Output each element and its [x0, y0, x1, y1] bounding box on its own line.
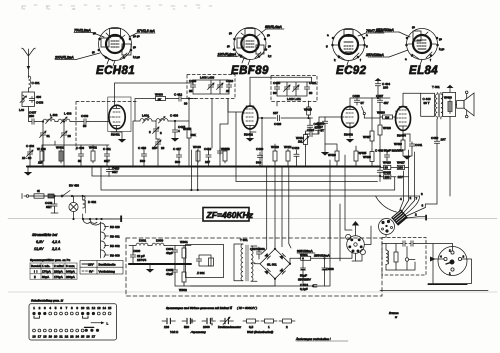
resistor W411 — [284, 145, 292, 167]
svg-text:11: 11 — [86, 306, 89, 310]
svg-text:180: 180 — [398, 166, 403, 170]
capacitor C434 — [375, 78, 391, 99]
svg-text:7: 7 — [416, 197, 418, 201]
svg-text:1M: 1M — [385, 116, 390, 120]
svg-text:C410: C410 — [226, 79, 234, 83]
resistor W427 — [397, 161, 409, 170]
svg-text:350/385V: 350/385V — [298, 278, 311, 282]
speaker LS — [456, 91, 474, 118]
socket wires — [352, 226, 371, 261]
svg-text:EC92: EC92 — [336, 65, 367, 77]
capacitor C409 — [81, 114, 89, 128]
resistor W601 — [290, 252, 352, 264]
svg-text:Rö 426: Rö 426 — [110, 225, 120, 229]
svg-text:L408 L409: L408 L409 — [200, 76, 215, 80]
vertical feeder x414.5 — [414, 152, 416, 201]
capacitor C425 — [307, 118, 321, 130]
svg-text:T 601: T 601 — [240, 238, 248, 242]
svg-text:C441: C441 — [415, 143, 423, 147]
coil D402 — [82, 195, 97, 219]
wire box2 down legs — [276, 102, 278, 107]
svg-text:C 416: C 416 — [138, 146, 146, 150]
svg-text:13: 13 — [97, 306, 101, 310]
svg-text:0,1μF: 0,1μF — [300, 287, 308, 291]
svg-text:22: 22 — [65, 335, 69, 339]
filter coil in box — [386, 244, 389, 271]
caps in box top — [382, 241, 426, 246]
wire EBF89 plate top — [250, 77, 312, 106]
svg-text:C420: C420 — [256, 147, 264, 151]
svg-text:1874/4: 1874/4 — [137, 258, 147, 262]
svg-text:C 401: C 401 — [32, 81, 40, 85]
plug face circle — [379, 219, 395, 238]
svg-text:7: 7 — [66, 306, 68, 310]
tube socket U-EC92 — [326, 29, 368, 71]
capacitor C410b below bus — [106, 167, 119, 177]
resistor W427b — [363, 98, 374, 150]
vertical feeder x408.5 — [408, 150, 410, 201]
tube Ro404 EL84 — [396, 104, 411, 138]
coil D601 — [129, 239, 148, 246]
svg-text:Drehkondensator: Drehkondensator — [218, 325, 241, 329]
table Spannungswaehler — [30, 258, 77, 279]
resistor W405 — [221, 147, 229, 163]
svg-text:EBF89: EBF89 — [231, 65, 269, 77]
resistor W428 — [378, 105, 391, 167]
page top tick marks — [22, 5, 212, 9]
svg-text:T 401: T 401 — [432, 85, 440, 89]
svg-text:19: 19 — [49, 335, 53, 339]
svg-text:W409: W409 — [183, 127, 191, 131]
capacitor C412 — [174, 93, 188, 106]
ground symbol at bus start — [24, 167, 32, 176]
wire AC drop 1 — [262, 167, 267, 254]
capacitor C442a — [381, 150, 393, 161]
EL84 cathode network W429 C441 — [394, 130, 423, 160]
svg-text:25: 25 — [81, 335, 85, 339]
capacitor C418 — [217, 147, 230, 155]
switch table Schalterstellung — [29, 299, 117, 341]
svg-text:2: 2 — [39, 306, 41, 310]
svg-text:40μF: 40μF — [166, 251, 173, 255]
coil L402 — [43, 113, 58, 124]
svg-text:187: 187 — [273, 111, 278, 115]
svg-text:L 402: L 402 — [50, 113, 58, 117]
trimmer C402 — [22, 144, 34, 167]
svg-text:π: π — [395, 315, 398, 319]
svg-text:400: 400 — [36, 95, 41, 99]
svg-text:Rö 401: Rö 401 — [110, 235, 120, 239]
svg-text:280μA: 280μA — [66, 275, 75, 279]
svg-text:30 T: 30 T — [424, 101, 430, 105]
svg-text:Rö403: Rö403 — [344, 133, 353, 137]
wire bottom power — [191, 261, 330, 286]
svg-text:457: 457 — [384, 101, 389, 105]
svg-text:Volt Ω: Volt Ω — [170, 330, 179, 334]
wire W430 down — [449, 116, 451, 196]
wire x212 drop — [211, 99, 213, 149]
capacitor C436 — [353, 94, 365, 105]
capacitor C600 — [130, 246, 146, 265]
svg-text:C 408: C 408 — [170, 114, 178, 118]
resistor W901 — [180, 240, 188, 264]
coil C408 — [156, 114, 178, 124]
svg-text:C418: C418 — [223, 147, 231, 151]
fuse Si — [29, 189, 48, 198]
potentiometer W414 — [296, 127, 310, 166]
svg-text:12V: 12V — [88, 263, 93, 267]
resistor W418 — [304, 101, 312, 119]
svg-text:14: 14 — [103, 306, 107, 310]
svg-text:a: a — [405, 57, 407, 61]
svg-text:W406: W406 — [155, 93, 163, 97]
dashed output box — [382, 238, 426, 276]
capacitor C420b — [256, 147, 264, 167]
svg-text:C437: C437 — [376, 94, 384, 98]
svg-text:4: 4 — [178, 129, 180, 133]
svg-text:g3: g3 — [439, 37, 443, 41]
svg-text:4: 4 — [400, 197, 402, 201]
svg-text:g3: g3 — [133, 45, 137, 49]
svg-text:10T: 10T — [441, 138, 446, 142]
wire feed y145 — [55, 141, 109, 145]
tube Ro403 EC92 — [342, 107, 359, 137]
svg-text:4: 4 — [49, 306, 51, 310]
svg-text:C607/2000: C607/2000 — [250, 247, 265, 251]
svg-text:9: 9 — [76, 306, 78, 310]
legend res 2 — [279, 319, 295, 329]
resistor W429b — [363, 150, 374, 167]
svg-text:87V/2,8 mA: 87V/2,8 mA — [137, 29, 155, 33]
svg-text:0,5: 0,5 — [249, 325, 254, 329]
trimmer C404 — [40, 120, 51, 166]
svg-text:24: 24 — [76, 335, 80, 339]
svg-text:SET: SET — [112, 170, 118, 174]
switch RV455 — [362, 107, 366, 119]
svg-text:2,2 A: 2,2 A — [51, 247, 61, 251]
svg-text:1: 1 — [268, 325, 270, 329]
svg-text:3: 3 — [421, 192, 423, 196]
svg-text:W430: W430 — [377, 111, 385, 115]
tube Ro402 EBF89 — [242, 103, 258, 137]
bus in power box (thick) — [129, 263, 191, 265]
capacitor C439 — [431, 119, 446, 204]
resistor W420 — [380, 161, 397, 170]
svg-text:50: 50 — [78, 159, 82, 163]
svg-text:30: 30 — [184, 102, 188, 106]
svg-text:Rö 409: Rö 409 — [110, 254, 120, 258]
coil C401 — [28, 76, 39, 92]
heater tap labels — [105, 225, 121, 258]
dashed tuner enclosure — [76, 102, 137, 151]
svg-text:W425: W425 — [359, 151, 367, 155]
svg-text:29: 29 — [161, 146, 165, 150]
svg-text:3: 3 — [463, 255, 465, 259]
svg-text:23: 23 — [70, 335, 74, 339]
svg-text:75V/2,8mA: 75V/2,8mA — [74, 29, 92, 33]
svg-text:16: 16 — [32, 335, 36, 339]
junction dots on bus — [29, 165, 381, 167]
svg-text:g2: g2 — [412, 25, 416, 29]
svg-text:4,2 A: 4,2 A — [52, 240, 61, 244]
annotation ECH81 top-right — [129, 29, 155, 37]
wire AC drop 2 — [274, 167, 276, 249]
svg-text:80μA: 80μA — [42, 275, 49, 279]
svg-text:40μF: 40μF — [166, 272, 173, 276]
svg-text:W430: W430 — [444, 96, 452, 100]
ground bus (thick) — [27, 165, 380, 167]
svg-text:k: k — [334, 58, 336, 62]
note Aenderungen — [295, 337, 348, 341]
annotation EC92 top-right — [358, 29, 384, 36]
resistor W402 — [89, 145, 97, 163]
svg-text:1M: 1M — [38, 161, 43, 165]
capacitor C440 on drop — [377, 168, 382, 182]
svg-text:100: 100 — [383, 86, 388, 90]
svg-text:↗spannung: ↗spannung — [190, 330, 206, 334]
svg-text:g: g — [326, 44, 328, 48]
svg-text:W425: W425 — [383, 171, 391, 175]
speaker plug wiring — [426, 244, 472, 285]
svg-text:II: II — [34, 275, 36, 279]
capacitor C602 — [322, 257, 334, 286]
legend trimmer — [218, 317, 241, 330]
wire AC drop 3 — [281, 167, 283, 247]
svg-text:21: 21 — [59, 335, 63, 339]
node in box — [386, 247, 415, 271]
svg-text:ECH81: ECH81 — [96, 65, 135, 77]
speaker plug circle — [438, 247, 467, 276]
tube socket U-EL84 — [405, 25, 445, 71]
svg-text:340μA: 340μA — [66, 270, 75, 274]
svg-text:520: 520 — [184, 325, 189, 329]
svg-text:Schalterstellung gem. M: Schalterstellung gem. M — [31, 299, 64, 303]
svg-text:Rö 402: Rö 402 — [110, 244, 120, 248]
box W430 — [443, 92, 456, 116]
svg-text:2: 2 — [286, 325, 288, 329]
svg-text:C600: C600 — [133, 249, 141, 253]
resistor W406 — [154, 93, 168, 102]
wire to EL84 grid — [364, 111, 396, 118]
resistor W409 — [183, 97, 196, 166]
svg-text:C424: C424 — [307, 128, 315, 132]
svg-text:2: 2 — [149, 130, 151, 134]
svg-text:500: 500 — [175, 160, 180, 164]
svg-text:170μA: 170μA — [42, 270, 51, 274]
svg-text:I I: I I — [34, 270, 38, 274]
capacitor C415 — [171, 120, 186, 142]
svg-text:1M: 1M — [298, 140, 303, 144]
svg-text:260: 260 — [29, 114, 34, 118]
svg-text:Watt (Belastbarkeit): Watt (Belastbarkeit) — [247, 330, 273, 334]
svg-text:200V/5,2mA: 200V/5,2mA — [54, 56, 74, 60]
svg-text:1 min.: 1 min. — [42, 264, 50, 268]
svg-text:C426: C426 — [274, 122, 282, 126]
svg-text:15: 15 — [108, 306, 112, 310]
annotation 255V — [314, 254, 330, 258]
capacitor C407 — [29, 111, 37, 125]
svg-text:5T: 5T — [361, 101, 365, 105]
svg-text:W411: W411 — [284, 145, 292, 149]
ground in power box — [146, 264, 154, 273]
svg-text:L 403: L 403 — [64, 112, 72, 116]
fan wire tips — [400, 192, 424, 217]
grid stopper to tube — [108, 117, 110, 122]
annotation ECH81 lower-left — [54, 53, 100, 60]
capacitor C443 — [45, 195, 58, 213]
wire fan5 to tick — [418, 216, 425, 218]
svg-text:10: 10 — [81, 306, 85, 310]
legend res 1 — [261, 319, 277, 329]
svg-text:C409: C409 — [81, 114, 89, 118]
svg-text:1: 1 — [449, 272, 451, 276]
svg-text:g: g — [366, 44, 368, 48]
svg-text:12V: 12V — [398, 175, 403, 179]
svg-text:W429: W429 — [363, 155, 371, 159]
svg-text:31: 31 — [47, 134, 51, 138]
svg-text:W901: W901 — [180, 240, 188, 244]
bridge AC connections — [191, 263, 275, 286]
svg-text:C403: C403 — [36, 101, 44, 105]
svg-text:C439: C439 — [431, 136, 439, 140]
svg-text:126: 126 — [164, 325, 169, 329]
electrolytic C442 labels — [375, 149, 403, 153]
svg-text:k,t: k,t — [268, 54, 271, 58]
svg-text:Spannungswähler gem. an Pu: Spannungswähler gem. an Pu — [30, 258, 71, 262]
svg-text:30: 30 — [385, 166, 389, 170]
svg-text:5: 5 — [55, 306, 57, 310]
svg-text:W427: W427 — [363, 135, 371, 139]
resistor W401 — [56, 146, 64, 164]
svg-text:C419: C419 — [204, 147, 212, 151]
svg-text:3: 3 — [160, 131, 162, 135]
wire osc mid — [133, 121, 189, 167]
svg-text:88V/0,4mA: 88V/0,4mA — [265, 25, 283, 29]
svg-text:Bereich: Bereich — [31, 264, 42, 268]
wire bridge output right — [330, 200, 340, 261]
resistor W425b — [354, 146, 367, 167]
svg-text:Z 601: Z 601 — [196, 271, 205, 275]
svg-text:C 417: C 417 — [173, 147, 181, 151]
resistor in box — [394, 244, 398, 271]
wire AC drop 4 — [289, 167, 291, 249]
wire osc top — [135, 99, 196, 122]
annotation ECH81 left — [74, 29, 104, 38]
svg-text:27: 27 — [92, 335, 96, 339]
capacitor C437 — [376, 94, 389, 105]
svg-text:3 max.: 3 max. — [66, 264, 75, 268]
ground above socket — [352, 221, 359, 236]
tube Ro401 ECH81 triode-heptode — [109, 105, 125, 137]
svg-text:Spannungen und Ströme gemessen: Spannungen und Ströme gemessen mit Multa… — [166, 306, 257, 310]
vertical feeder x403.5 — [403, 171, 405, 201]
svg-text:2: 2 — [415, 213, 417, 217]
heater wire y219 — [82, 218, 121, 220]
annotation EBF89 top-right — [261, 25, 284, 33]
svg-text:4: 4 — [440, 255, 442, 259]
wire ECH81 cathode — [111, 129, 126, 143]
svg-text:6,3V: 6,3V — [36, 240, 44, 244]
svg-text:1K: 1K — [158, 97, 162, 101]
svg-text:a: a — [366, 33, 368, 37]
resistor W441 — [48, 194, 60, 198]
svg-text:29: 29 — [68, 134, 72, 138]
resistor W433 — [377, 111, 395, 120]
svg-text:Änderungen vorbehalten !: Änderungen vorbehalten ! — [295, 337, 331, 341]
annotation EL84 top-left — [375, 28, 410, 37]
dashed filter box L410-L411 — [271, 76, 317, 102]
svg-text:C436: C436 — [353, 94, 361, 98]
trimmer C414 — [152, 139, 165, 167]
svg-text:6: 6 — [60, 306, 62, 310]
legend cap 1000 — [202, 318, 215, 329]
capacitor C607 — [250, 247, 265, 259]
resistor W425 — [381, 171, 409, 180]
ground above T401 — [447, 85, 454, 93]
coil L404 — [140, 114, 152, 124]
svg-text:k,t,g5: k,t,g5 — [133, 55, 141, 59]
dial lamp — [69, 196, 78, 220]
svg-text:170μA: 170μA — [54, 275, 63, 279]
wire EBF89 left drop — [261, 117, 263, 167]
svg-text:W601: W601 — [300, 253, 308, 257]
svg-text:50: 50 — [83, 124, 87, 128]
svg-text:g2: g2 — [229, 31, 233, 35]
capacitor C416 — [138, 146, 147, 167]
svg-text:C421: C421 — [309, 81, 317, 85]
resistor W410 — [271, 144, 279, 167]
Z601 selenium box — [186, 245, 224, 278]
svg-text:10 - 60: 10 - 60 — [22, 156, 32, 160]
antenna — [22, 48, 36, 79]
vertical feeder x394.7 — [394, 177, 396, 190]
tube socket U-ECH81 — [92, 28, 141, 74]
dashed power supply enclosure — [126, 238, 382, 296]
faint page line A — [8, 218, 497, 220]
wire ECH81 plate up — [115, 83, 194, 106]
wire EBF89 cathode down — [246, 129, 256, 142]
coil D600 — [148, 239, 171, 246]
svg-text:250V/28mA: 250V/28mA — [365, 53, 384, 57]
svg-text:f: f — [430, 58, 431, 62]
svg-text:1000: 1000 — [203, 325, 210, 329]
wire net-3 y190 — [101, 167, 395, 191]
svg-text:167: 167 — [205, 160, 210, 164]
svg-text:250V/30mA: 250V/30mA — [375, 28, 394, 32]
note Brumm — [389, 311, 399, 319]
capacitor C424 — [305, 117, 325, 137]
wire heater drop A — [190, 150, 192, 190]
svg-text:18: 18 — [43, 335, 47, 339]
svg-text:3: 3 — [44, 306, 46, 310]
text Stromstaerke — [32, 233, 61, 251]
svg-text:8: 8 — [71, 306, 73, 310]
legend line-style box — [80, 261, 123, 275]
antenna coil box L400 — [19, 92, 44, 118]
svg-text:SET: SET — [46, 205, 52, 209]
svg-text:g1: g1 — [227, 44, 231, 48]
wire EC92 plate — [350, 98, 390, 107]
svg-text:2 mittel: 2 mittel — [54, 264, 64, 268]
wire lower right rail — [380, 290, 488, 292]
annotation EBF89 left — [218, 53, 243, 57]
svg-text:k,g3: k,g3 — [439, 47, 445, 51]
svg-text:a: a — [327, 33, 329, 37]
resistor W902 — [179, 264, 187, 292]
mains plug — [22, 194, 29, 199]
svg-text:f: f — [360, 58, 361, 62]
svg-text:GL 601: GL 601 — [267, 262, 277, 266]
